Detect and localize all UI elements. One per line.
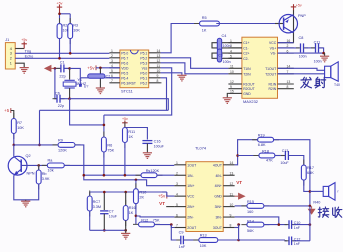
svg-text:C16: C16: [154, 140, 161, 144]
svg-text:P6.7: P6.7: [121, 56, 128, 60]
resistor R11 1K: [124, 122, 126, 148]
svg-text:R16: R16: [129, 206, 136, 210]
svg-text:11: 11: [230, 192, 234, 196]
svg-text:100n: 100n: [314, 59, 322, 63]
junction C12 node: [237, 239, 240, 242]
wire R2 to Echo: [59, 39, 61, 59]
junction R3-Trig: [69, 52, 72, 55]
svg-text:3: 3: [111, 59, 113, 63]
wire VDD decouple down: [99, 68, 101, 88]
svg-text:11: 11: [230, 65, 234, 69]
connector J1: [5, 43, 15, 69]
svg-text:22p: 22p: [58, 104, 64, 108]
resistor R18 47K: [238, 155, 259, 157]
svg-text:T1OUT: T1OUT: [265, 67, 276, 71]
svg-text:3: 3: [10, 52, 12, 56]
svg-text:P6.4: P6.4: [121, 76, 128, 80]
label receive shou: [333, 207, 342, 217]
svg-text:4: 4: [10, 47, 12, 51]
wire R12 to 2OUT: [155, 225, 175, 228]
crystal Y1 4MHZ: [69, 68, 71, 79]
svg-text:R2IN: R2IN: [268, 87, 276, 91]
svg-text:Rs120K: Rs120K: [146, 169, 160, 173]
ground VDD cap: [96, 88, 105, 94]
node C6 right: [68, 97, 71, 100]
svg-text:C1: C1: [60, 61, 65, 65]
op-amp U3 TL074 body: [186, 162, 223, 232]
svg-text:R5: R5: [202, 16, 207, 20]
svg-text:VCC: VCC: [269, 41, 277, 45]
wire R15 to receive node: [264, 205, 310, 207]
junction R14 right: [278, 223, 281, 226]
ground MAX232 GND: [227, 93, 228, 97]
svg-text:10k: 10k: [48, 169, 54, 173]
junction mid rail R6: [103, 124, 106, 127]
svg-text:3IN-: 3IN-: [215, 216, 221, 220]
capacitor C6 22p: [53, 98, 58, 100]
ground Q2: [25, 200, 27, 201]
wire R13 to C12 node: [218, 239, 239, 241]
wire 3IN+ line R15: [235, 205, 248, 207]
svg-text:1: 1: [111, 49, 113, 53]
svg-text:MAX232: MAX232: [243, 99, 258, 104]
svg-text:R7: R7: [17, 121, 22, 125]
node R7: [13, 144, 16, 147]
svg-text:J1: J1: [5, 38, 9, 42]
svg-text:12: 12: [230, 80, 234, 84]
node crystal-net column: [38, 144, 41, 147]
svg-text:75K: 75K: [153, 218, 160, 222]
wire 4OUT up: [235, 140, 258, 165]
svg-text:3IN+: 3IN+: [215, 205, 222, 209]
wire R7 to node: [13, 134, 15, 145]
svg-text:T2IN: T2IN: [243, 72, 251, 76]
junction R11 line2: [124, 174, 127, 177]
resistor R10 2K: [135, 180, 137, 189]
svg-text:1OUT: 1OUT: [187, 163, 196, 167]
ground C16: [146, 143, 148, 152]
wire T2OUT to speaker: [278, 73, 325, 75]
power +5v VDD: [95, 65, 97, 70]
resistor Rb 3.9K: [38, 165, 40, 170]
junction line2: [83, 174, 86, 177]
svg-text:3OUT: 3OUT: [213, 226, 222, 230]
wire VCC pin to PNP: [278, 42, 294, 44]
svg-text:2K: 2K: [139, 196, 144, 200]
svg-text:Q2: Q2: [26, 154, 31, 158]
junction R16 top rail: [124, 191, 127, 194]
svg-text:STC11: STC11: [121, 89, 133, 94]
svg-text:4: 4: [176, 192, 178, 196]
wire RC7 bottom: [89, 211, 91, 230]
svg-text:10K: 10K: [200, 244, 207, 248]
svg-text:9: 9: [230, 85, 232, 89]
label transmit she: [315, 77, 326, 88]
wire R11 bottom to line2: [124, 143, 126, 176]
wire +5 to R7: [11, 111, 14, 119]
resistor R12 75K: [133, 223, 160, 225]
wire Echo: [15, 57, 109, 59]
wire P5.2 to T1IN: [161, 58, 229, 69]
power +5v TL074 VCC: [90, 191, 162, 193]
wire to RX speaker: [310, 190, 323, 192]
svg-text:4OUT: 4OUT: [213, 163, 222, 167]
wire C11 to VS- node: [319, 48, 324, 53]
svg-text:10uF: 10uF: [280, 161, 289, 165]
svg-text:R2OUT: R2OUT: [243, 87, 255, 91]
svg-text:1K: 1K: [202, 29, 207, 33]
svg-text:P5.2: P5.2: [140, 56, 147, 60]
junction R14 left: [237, 223, 240, 226]
svg-text:+5v: +5v: [21, 38, 27, 42]
svg-text:13: 13: [157, 54, 161, 58]
svg-text:+5v: +5v: [57, 2, 63, 6]
svg-text:15: 15: [230, 90, 234, 94]
svg-text:1K: 1K: [128, 135, 133, 139]
wire P6.0 to ground: [161, 73, 182, 75]
svg-text:P5.3: P5.3: [140, 61, 147, 65]
svg-text:68K: 68K: [307, 171, 314, 175]
svg-text:3.9K: 3.9K: [42, 177, 50, 181]
ground VS- node: [324, 53, 326, 56]
svg-text:C2-: C2-: [243, 57, 248, 61]
port arrow receive: [311, 206, 313, 209]
svg-text:4IN+: 4IN+: [215, 184, 222, 188]
resistor R6 75K: [103, 132, 105, 158]
junction C10 node: [309, 223, 312, 226]
svg-text:Echo: Echo: [25, 54, 34, 58]
resistor R2 10K: [59, 18, 61, 44]
svg-text:1IN+: 1IN+: [187, 184, 194, 188]
junction C7 bottom: [103, 229, 106, 232]
ground J1: [20, 68, 29, 74]
resistor R9 120K: [53, 144, 81, 146]
svg-text:R18: R18: [262, 149, 269, 153]
svg-text:R9: R9: [58, 139, 63, 143]
resistor R5 1K: [194, 23, 225, 25]
svg-text:VS-: VS-: [271, 52, 277, 56]
wire C6 node right run: [70, 99, 169, 111]
wire 2IN- line: [136, 215, 174, 218]
capacitor C2 on P6.4 line: [80, 77, 120, 79]
wire Vss loop to R6 top: [104, 68, 172, 115]
svg-text:P6.3/RST: P6.3/RST: [121, 81, 136, 85]
capacitor C13 10uF: [275, 155, 285, 157]
svg-text:C8: C8: [299, 36, 304, 40]
svg-text:R11: R11: [128, 130, 135, 134]
power +5 left: [10, 108, 12, 113]
svg-text:+5v: +5v: [158, 194, 166, 199]
svg-text:12: 12: [230, 182, 234, 186]
svg-text:C6: C6: [55, 92, 60, 96]
transistor Q2 NPN: [13, 145, 15, 157]
svg-text:NPN: NPN: [27, 172, 35, 176]
svg-text:10: 10: [230, 203, 234, 207]
junction C7 top: [103, 191, 106, 194]
svg-text:2IN-: 2IN-: [187, 216, 193, 220]
svg-text:VDD: VDD: [121, 66, 129, 70]
svg-text:C4: C4: [222, 34, 227, 38]
capacitor C10 1nF: [285, 224, 290, 226]
svg-text:+5v: +5v: [296, 4, 302, 8]
wire crystal left column: [55, 68, 57, 98]
wire line2 to 1IN-: [157, 174, 174, 176]
capacitor C3 100n loop: [212, 53, 242, 58]
wire R17 to speaker node: [304, 180, 310, 191]
svg-text:1nF: 1nF: [294, 226, 301, 230]
svg-text:1nF: 1nF: [179, 245, 186, 249]
pad stub U below xtal: [79, 78, 81, 85]
capacitor C1 22p: [55, 67, 60, 69]
svg-text:U?: U?: [84, 85, 89, 89]
svg-text:C1+: C1+: [243, 41, 249, 45]
resistor R13 10K: [185, 239, 199, 241]
power +5v J1: [23, 42, 25, 49]
speaker LS2 receive: [323, 186, 328, 196]
svg-text:8: 8: [230, 224, 232, 228]
svg-text:C3: C3: [218, 54, 223, 58]
svg-text:C2+: C2+: [243, 52, 249, 56]
junction R10 top node: [135, 179, 138, 182]
svg-text:14: 14: [157, 49, 161, 53]
wire P5.1 to R5: [161, 24, 199, 53]
transistor Q1 PNP: [293, 10, 295, 43]
svg-text:R14: R14: [247, 219, 254, 223]
wire +5v to R2/R3: [60, 13, 71, 15]
svg-text:160: 160: [247, 210, 253, 214]
svg-text:R17: R17: [307, 166, 314, 170]
junction R16 bottom: [124, 229, 127, 232]
wire R5 to PNP base: [216, 23, 275, 25]
svg-text:3.3M: 3.3M: [93, 205, 101, 209]
svg-text:13: 13: [287, 80, 291, 84]
capacitor C4 100n loop: [212, 43, 242, 48]
svg-text:R12: R12: [141, 218, 148, 222]
node C1 left: [54, 67, 57, 70]
resistor R7 10K: [13, 113, 15, 139]
resistor R3 10K: [69, 18, 71, 44]
svg-text:C7: C7: [109, 210, 114, 214]
wire J1 pin1 to ground: [15, 63, 24, 67]
wire node to R9: [14, 144, 57, 146]
svg-text:9: 9: [157, 74, 159, 78]
wire C6 node down to mid rail: [70, 99, 104, 125]
wire 3OUT to R14: [235, 227, 239, 229]
svg-text:P6.0: P6.0: [140, 71, 147, 75]
svg-text:1: 1: [10, 62, 12, 66]
svg-text:R1OUT: R1OUT: [243, 83, 255, 87]
svg-text:10K: 10K: [17, 126, 24, 130]
svg-text:P6.1: P6.1: [140, 76, 147, 80]
node C1 right: [68, 67, 71, 70]
wire R9 to lines 2-3: [76, 145, 136, 180]
svg-text:VT: VT: [236, 180, 242, 185]
port arrow GND pin 11: [235, 195, 239, 197]
svg-text:+5v: +5v: [87, 65, 95, 70]
svg-text:75K: 75K: [107, 149, 114, 153]
svg-text:1K: 1K: [129, 211, 134, 215]
wire R6 bottom to line2: [103, 152, 105, 175]
svg-text:12: 12: [157, 59, 161, 63]
svg-text:6: 6: [176, 213, 178, 217]
svg-text:3: 3: [176, 182, 178, 186]
svg-text:2: 2: [176, 171, 178, 175]
wire crystal net horizontal: [40, 109, 169, 111]
svg-text:R10: R10: [139, 191, 146, 195]
svg-text:100n: 100n: [223, 44, 231, 48]
resistor R14 56K: [241, 224, 269, 226]
svg-text:100n: 100n: [299, 54, 307, 58]
svg-text:P5.0: P5.0: [121, 51, 128, 55]
speaker LS1 transmit: [325, 66, 331, 77]
ground bottom rail: [125, 230, 127, 233]
svg-text:RC7: RC7: [93, 200, 101, 204]
wire R10 bottom to 2IN- line: [135, 203, 137, 224]
svg-text:7: 7: [111, 79, 113, 83]
svg-text:R1IN: R1IN: [268, 83, 276, 87]
wire R3 to Trig: [69, 39, 71, 54]
junction R10 2IN-: [135, 215, 138, 218]
svg-text:13: 13: [230, 171, 234, 175]
svg-text:1: 1: [176, 161, 178, 165]
svg-text:+5v: +5v: [122, 117, 128, 121]
power +5v rail top: [59, 5, 61, 14]
node +5v split: [58, 13, 61, 16]
svg-text:VS+: VS+: [270, 46, 277, 50]
svg-text:T1IN: T1IN: [243, 67, 251, 71]
wire J1 pin4 to +5v: [15, 48, 24, 50]
wire P5.3 to T2IN: [161, 63, 229, 74]
svg-text:Trig: Trig: [25, 49, 31, 53]
node VDD: [99, 67, 102, 70]
wire pin8 node down: [238, 225, 240, 240]
wire Trig: [15, 52, 109, 54]
svg-text:R19: R19: [258, 134, 265, 138]
svg-text:2OUT: 2OUT: [187, 226, 196, 230]
svg-text:100n: 100n: [223, 60, 231, 64]
resistor Rs120K on line2: [136, 174, 163, 176]
wire T1OUT to speaker: [278, 68, 325, 70]
wire R6 top: [103, 115, 105, 137]
ground P6.0: [177, 75, 186, 81]
svg-text:4IN-: 4IN-: [215, 174, 221, 178]
svg-text:1IN-: 1IN-: [187, 174, 193, 178]
resistor R15 160: [241, 205, 269, 207]
svg-text:Vss: Vss: [142, 66, 148, 70]
wire line3 to 1IN+ dogleg: [136, 180, 174, 186]
svg-text:C1-: C1-: [243, 46, 248, 50]
svg-text:GND: GND: [214, 195, 222, 199]
label receive jie: [318, 207, 328, 217]
power R11 top: [124, 121, 126, 128]
svg-text:P6.6: P6.6: [121, 61, 128, 65]
resistor R16 1K: [125, 192, 127, 206]
resistor R17 68K: [303, 160, 305, 186]
junction R2-Echo: [58, 57, 61, 60]
svg-text:9: 9: [230, 213, 232, 217]
wire C10 to receive column: [294, 224, 310, 226]
wire Q2 base to Ra: [21, 164, 47, 166]
junction R18 left: [236, 154, 239, 157]
svg-text:C11: C11: [314, 40, 321, 44]
label transmit fa: [301, 77, 312, 88]
wire C1 right to MCU xtal: [70, 68, 81, 77]
svg-text:P6.2: P6.2: [140, 81, 147, 85]
svg-text:5: 5: [111, 69, 113, 73]
svg-text:C2: C2: [106, 74, 111, 78]
capacitor C11 100n: [305, 47, 315, 49]
svg-text:100uF: 100uF: [154, 144, 165, 148]
svg-text:5: 5: [176, 203, 178, 207]
wire RC7 top: [89, 192, 91, 196]
svg-text:1nF: 1nF: [294, 242, 301, 246]
svg-text:R2: R2: [63, 24, 68, 28]
capacitor C16 100uF: [142, 140, 152, 142]
power +5v PNP emitter: [293, 4, 295, 10]
svg-text:10K: 10K: [73, 29, 80, 33]
wire 2OUT node down: [171, 225, 180, 240]
svg-text:R15: R15: [247, 200, 254, 204]
svg-text:T2OUT: T2OUT: [265, 72, 276, 76]
junction receive node: [309, 205, 312, 208]
svg-text:C13: C13: [282, 149, 289, 153]
wire Q2 emitter to ground rail: [14, 175, 39, 199]
resistor Ra 10k: [42, 164, 70, 166]
resistor R19 6.8K: [252, 139, 279, 141]
port arrow crystal left: [51, 67, 55, 69]
wire R14 to C10: [264, 224, 287, 226]
wire C7 column: [103, 192, 105, 210]
svg-text:GND: GND: [243, 92, 251, 96]
svg-text:+5: +5: [4, 108, 10, 113]
svg-text:C9: C9: [179, 230, 184, 234]
wire crystal net to R7 node: [39, 110, 41, 145]
MAX232 U2 body: [242, 37, 278, 98]
wire bottom rail: [90, 229, 126, 231]
capacitor C7 10uF: [100, 210, 108, 212]
svg-text:2: 2: [111, 54, 113, 58]
svg-text:R40: R40: [313, 200, 320, 204]
svg-text:Rb: Rb: [42, 172, 47, 176]
capacitor C8 100n: [278, 47, 299, 49]
wire 3IN- loop: [235, 217, 279, 225]
wire P6.1 loop to Q2 node: [161, 78, 167, 111]
svg-text:120K: 120K: [58, 149, 67, 153]
svg-text:R3: R3: [73, 24, 78, 28]
capacitor C9 1nF: [176, 239, 181, 241]
junction R12 right: [170, 223, 173, 226]
svg-text:P5.1: P5.1: [140, 51, 147, 55]
wire R11 to C16: [125, 128, 147, 140]
svg-text:R6: R6: [107, 144, 112, 148]
stub P6.2: [160, 82, 163, 84]
junction speaker node: [309, 190, 312, 193]
MCU U1 STC11 body: [120, 50, 149, 88]
svg-text:R13: R13: [200, 234, 207, 238]
svg-text:VT: VT: [159, 201, 165, 206]
svg-text:22p: 22p: [59, 74, 65, 78]
wire C13 to R17: [289, 156, 304, 166]
svg-text:11: 11: [157, 64, 161, 68]
wire line2 from R9 column: [84, 174, 141, 176]
wire Ra to TL074 1OUT line: [64, 164, 174, 166]
capacitor C12 1nF: [239, 239, 285, 241]
svg-text:47K: 47K: [266, 158, 273, 162]
svg-text:10: 10: [157, 69, 161, 73]
svg-text:2IN+: 2IN+: [187, 205, 194, 209]
junction VS-: [322, 52, 325, 55]
svg-text:2: 2: [10, 57, 12, 61]
